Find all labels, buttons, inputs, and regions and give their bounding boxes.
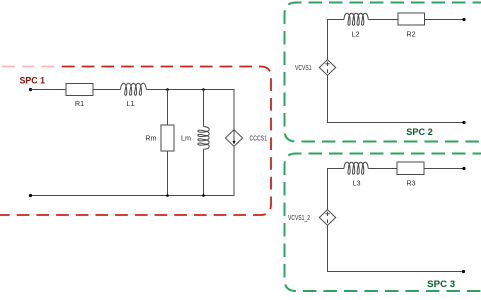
node: left bottom terminal bbox=[29, 194, 32, 197]
svg-text:R1: R1 bbox=[75, 99, 84, 108]
wire: top wire down to Lm bbox=[203, 90, 205, 127]
resistor R2 bbox=[398, 13, 425, 25]
svg-text:SPC 2: SPC 2 bbox=[406, 127, 433, 137]
svg-text:L3: L3 bbox=[353, 179, 361, 188]
subsystem boundary SPC 3 (green dashed box) bbox=[285, 154, 481, 292]
svg-text:SPC 3: SPC 3 bbox=[427, 279, 455, 289]
inductor L1 bbox=[121, 83, 147, 95]
node: left top terminal bbox=[29, 88, 32, 91]
inductor L2 bbox=[344, 13, 368, 25]
svg-text:VCVS1_2: VCVS1_2 bbox=[288, 213, 310, 222]
svg-text:SPC 1: SPC 1 bbox=[20, 76, 46, 86]
svg-text:CCCS1: CCCS1 bbox=[250, 134, 268, 143]
svg-text:L2: L2 bbox=[352, 30, 360, 39]
wire: R3 to right terminal bbox=[424, 168, 464, 170]
resistor R3 bbox=[397, 162, 424, 175]
node: SPC3 top right terminal bbox=[462, 167, 465, 170]
dependent current source CCCS1 (diamond) bbox=[225, 130, 242, 147]
resistor Rm bbox=[161, 125, 174, 151]
inductor L3 bbox=[344, 162, 368, 174]
resistor R1 bbox=[66, 84, 93, 96]
svg-text:Lm: Lm bbox=[181, 134, 191, 143]
subsystem boundary SPC 2 (green dashed box) bbox=[285, 3, 481, 142]
node: SPC2 bottom right terminal bbox=[462, 121, 465, 124]
svg-text:VCVS1: VCVS1 bbox=[295, 63, 312, 72]
node: junction bottom of Lm bbox=[202, 194, 205, 197]
node: junction bottom of Rm bbox=[166, 194, 169, 197]
svg-text:R3: R3 bbox=[406, 179, 415, 188]
dependent voltage source VCVS1_2 (diamond with + / -) bbox=[319, 210, 335, 226]
svg-text:R2: R2 bbox=[406, 30, 415, 39]
wire: top wire down to Rm bbox=[167, 90, 169, 126]
wire: VCVS1_2 bottom to right terminal bbox=[328, 225, 464, 271]
wire: L2 to R2 bbox=[368, 19, 398, 21]
node: SPC3 bottom right terminal bbox=[462, 270, 465, 273]
wire: R2 to right terminal bbox=[425, 19, 465, 21]
wire: VCVS1 top to L2 bbox=[328, 20, 345, 60]
wire: terminal to R1 bbox=[31, 89, 67, 91]
node: junction top of Rm bbox=[166, 88, 169, 91]
wire: Rm to bottom wire bbox=[167, 151, 169, 196]
wire: L3 to R3 bbox=[368, 168, 397, 170]
svg-text:Rm: Rm bbox=[145, 134, 156, 143]
wire: VCVS1_2 top to L3 bbox=[328, 169, 345, 210]
node: SPC2 top right terminal bbox=[462, 18, 465, 21]
wire: Lm to bottom wire bbox=[203, 149, 205, 195]
wire: R1 to L1 bbox=[93, 89, 121, 91]
wire: VCVS1 bottom to right terminal bbox=[328, 75, 465, 122]
wire: L1 to CCCS1 top corner bbox=[146, 90, 234, 130]
inductor Lm (vertical) bbox=[198, 127, 209, 150]
dependent voltage source VCVS1 (diamond with + / -) bbox=[319, 60, 335, 76]
node: junction top of Lm bbox=[202, 88, 205, 91]
wire: CCCS1 to bottom wire corner bbox=[31, 146, 235, 195]
subsystem boundary SPC 1 (red dashed box, faded top-left segment) bbox=[0, 67, 271, 216]
svg-text:L1: L1 bbox=[127, 99, 135, 108]
